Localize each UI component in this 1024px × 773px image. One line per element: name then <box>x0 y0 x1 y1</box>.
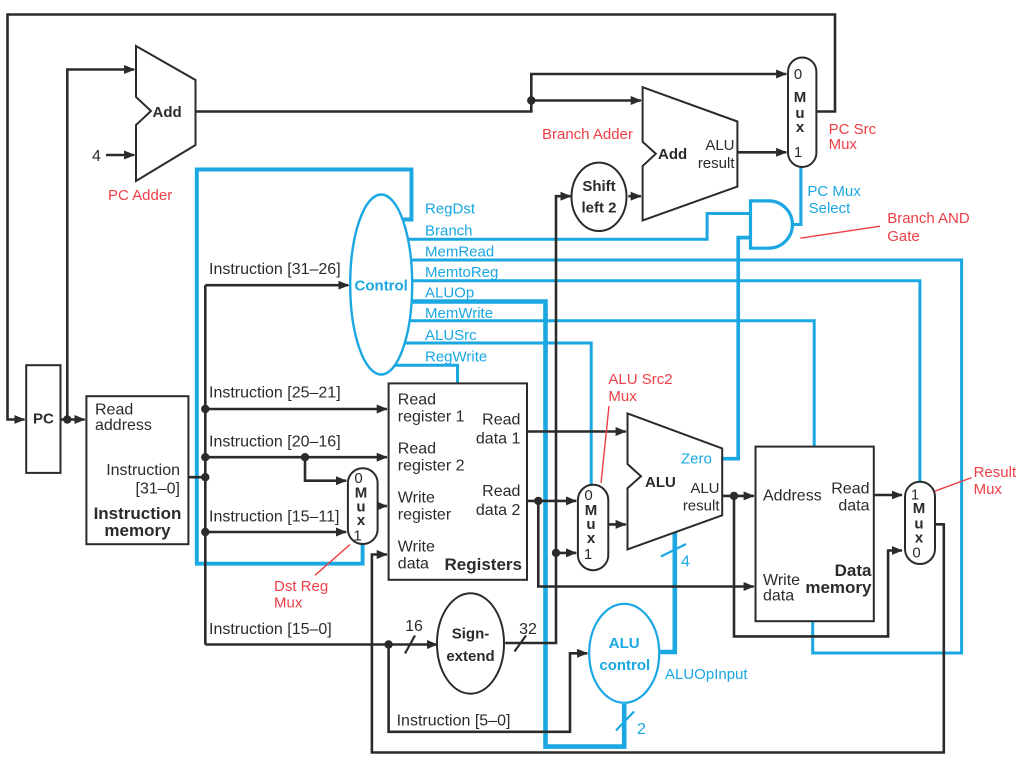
wire Sign-extend output up to Shift left 2 <box>505 196 571 643</box>
svg-text:[31–0]: [31–0] <box>136 481 180 498</box>
wire MemRead to Data memory bottom <box>400 260 962 653</box>
svg-text:MemtoReg: MemtoReg <box>425 264 498 281</box>
svg-text:x: x <box>357 512 366 529</box>
svg-text:x: x <box>587 530 596 547</box>
wire RegDst loop to Dst Reg Mux select <box>197 170 412 564</box>
svg-text:0: 0 <box>912 545 920 562</box>
svg-text:Branch AND: Branch AND <box>887 210 970 227</box>
ellipse Shift left 2 <box>572 163 627 231</box>
svg-text:Mux: Mux <box>608 388 637 405</box>
svg-text:Mux: Mux <box>829 136 858 153</box>
pointer Result Mux <box>935 478 972 492</box>
svg-text:ALU: ALU <box>690 480 719 497</box>
svg-text:result: result <box>698 155 736 172</box>
svg-text:0: 0 <box>794 66 802 83</box>
svg-text:PC Adder: PC Adder <box>108 187 172 204</box>
svg-text:M: M <box>794 89 807 106</box>
node 20-16 branch <box>301 453 309 461</box>
svg-text:Read: Read <box>831 481 869 498</box>
svg-text:Branch Adder: Branch Adder <box>542 126 633 143</box>
node PC output <box>63 415 71 423</box>
svg-text:Read: Read <box>482 412 520 429</box>
slash 2-bit <box>616 712 634 731</box>
svg-text:Result: Result <box>974 464 1017 481</box>
RED ANNOTATION LINES <box>315 226 972 575</box>
instruction memory box <box>86 396 188 544</box>
svg-text:Sign-: Sign- <box>452 626 490 643</box>
node PC+4 branch <box>527 96 535 104</box>
svg-text:MemRead: MemRead <box>425 244 494 261</box>
wire MemtoReg to Result Mux select <box>400 281 920 481</box>
wire AND gate output to PC Src Mux select <box>792 166 801 225</box>
svg-text:memory: memory <box>805 578 872 597</box>
svg-text:Mux: Mux <box>974 481 1003 498</box>
svg-text:ALU: ALU <box>645 474 676 491</box>
ellipse Control <box>350 195 412 375</box>
CYAN WIRES <box>197 166 962 747</box>
pointer Dst Reg Mux <box>315 545 350 576</box>
svg-text:register: register <box>398 507 452 524</box>
slash 32-bit <box>515 636 527 652</box>
wire Read data 1 to ALU <box>527 430 626 433</box>
svg-text:1: 1 <box>353 528 361 545</box>
svg-text:Read: Read <box>95 402 133 419</box>
svg-text:ALUOpInput: ALUOpInput <box>665 666 748 683</box>
svg-text:PC: PC <box>33 411 54 428</box>
slash 16-bit <box>405 636 415 654</box>
AND gate <box>751 201 793 248</box>
svg-text:Instruction [15–0]: Instruction [15–0] <box>209 621 332 638</box>
node ALU result tee <box>730 492 738 500</box>
wire Sign-extend branch to ALU Src2 Mux input 1 <box>556 552 576 555</box>
svg-text:control: control <box>599 657 650 674</box>
ellipse ALU control <box>589 604 659 703</box>
wire RegWrite to Registers <box>395 365 458 384</box>
svg-text:Write: Write <box>763 572 800 589</box>
wire Zero to AND gate <box>721 238 750 459</box>
svg-text:ALU: ALU <box>609 635 640 652</box>
wire Instruction 5-0 to ALU control <box>389 645 588 732</box>
node instruction output <box>201 473 209 481</box>
svg-text:MemWrite: MemWrite <box>425 305 493 322</box>
wire Instruction 15-0 to Sign-extend <box>205 643 437 646</box>
wire constant 4 into PC Adder <box>106 154 134 157</box>
svg-text:memory: memory <box>104 521 171 540</box>
wire Shift left 2 to Branch Adder <box>628 195 641 198</box>
node bus tap 20-16 <box>201 453 209 461</box>
svg-text:data 1: data 1 <box>476 431 521 448</box>
wire Read data 2 to ALU Src2 Mux input 0 <box>527 500 576 503</box>
wire PC Adder output to PC Src Mux input 0 <box>196 74 787 112</box>
svg-text:Select: Select <box>809 200 852 217</box>
wire ALUSrc to ALU Src2 Mux select <box>400 343 591 486</box>
wire Branch Adder output to PC Src Mux input 1 <box>737 151 786 154</box>
svg-text:4: 4 <box>92 148 101 165</box>
svg-text:RegDst: RegDst <box>425 201 476 218</box>
PC register box <box>26 365 60 473</box>
ellipse Sign-extend <box>437 593 504 693</box>
wire PC to instruction memory <box>61 418 85 421</box>
wire Instruction 15-11 to Dst Reg Mux input 1 <box>205 531 346 534</box>
mux ALU Src2 Mux <box>578 485 608 570</box>
svg-text:16: 16 <box>405 618 423 635</box>
svg-text:Address: Address <box>763 488 822 505</box>
svg-text:Branch: Branch <box>425 223 473 240</box>
node sign-extend line tee <box>552 549 560 557</box>
svg-text:RegWrite: RegWrite <box>425 349 487 366</box>
ALU main <box>628 413 723 549</box>
svg-text:Read: Read <box>482 483 520 500</box>
wire PC+4 to Branch Adder <box>531 99 641 102</box>
wire Instruction 20-16 to Read register 2 <box>205 456 387 459</box>
svg-text:Gate: Gate <box>887 228 920 245</box>
svg-text:Write: Write <box>398 539 435 556</box>
wire Instruction 20-16 branch to Dst Reg Mux input 0 <box>305 457 346 481</box>
svg-text:Instruction [20–16]: Instruction [20–16] <box>209 434 341 451</box>
wire instruction bus vertical <box>204 285 207 644</box>
wire instruction memory output to bus <box>188 476 205 479</box>
registers box <box>389 383 527 579</box>
svg-text:2: 2 <box>637 721 646 738</box>
svg-text:Dst Reg: Dst Reg <box>274 578 328 595</box>
slash 4-bit <box>661 544 686 557</box>
wire Instruction 25-21 to Read register 1 <box>205 408 387 411</box>
svg-text:Write: Write <box>398 490 435 507</box>
adder Branch Adder <box>643 87 738 220</box>
wire PC feedback loop <box>8 15 836 420</box>
svg-text:Add: Add <box>658 146 687 163</box>
BUS WIDTH SLASHES <box>405 544 686 731</box>
wire Dst Reg Mux output to Write register <box>378 505 387 508</box>
wire Branch to AND gate <box>400 214 750 240</box>
svg-text:data 2: data 2 <box>476 502 521 519</box>
svg-text:left 2: left 2 <box>581 200 616 217</box>
wire PC up to PC Adder <box>67 70 134 420</box>
adder PC Adder <box>136 46 196 181</box>
svg-text:32: 32 <box>519 621 537 638</box>
svg-text:1: 1 <box>584 546 592 563</box>
svg-text:ALUOp: ALUOp <box>425 285 474 302</box>
pointer Branch AND Gate <box>800 226 880 238</box>
svg-text:Instruction [15–11]: Instruction [15–11] <box>209 509 339 526</box>
pointer ALU Src2 Mux <box>601 406 609 483</box>
svg-text:M: M <box>913 500 926 517</box>
svg-text:Read: Read <box>398 392 436 409</box>
svg-text:data: data <box>398 556 429 573</box>
node 15-0 branch <box>384 640 392 648</box>
wire MemWrite to Data memory top <box>400 321 814 447</box>
svg-text:4: 4 <box>681 554 690 571</box>
node bus tap 15-11 <box>201 528 209 536</box>
wire Instruction 31-26 to Control <box>205 284 348 287</box>
wire Data memory Read data to Result Mux input 1 <box>874 494 902 497</box>
svg-text:data: data <box>838 498 869 515</box>
svg-text:address: address <box>95 417 152 434</box>
svg-text:ALU Src2: ALU Src2 <box>608 371 672 388</box>
mux Dst Reg Mux <box>348 468 378 544</box>
svg-text:Shift: Shift <box>582 178 615 195</box>
svg-text:register 2: register 2 <box>398 458 465 475</box>
svg-text:extend: extend <box>446 648 494 665</box>
svg-text:Control: Control <box>355 278 408 295</box>
svg-text:Registers: Registers <box>445 555 522 574</box>
svg-text:result: result <box>683 498 721 515</box>
mux Result Mux <box>905 482 935 564</box>
SHAPES <box>26 46 935 703</box>
wire ALU result to Data memory Address <box>722 495 754 498</box>
svg-text:Mux: Mux <box>274 595 303 612</box>
svg-text:data: data <box>763 588 794 605</box>
svg-text:Instruction [31–26]: Instruction [31–26] <box>209 261 341 278</box>
svg-text:ALU: ALU <box>705 137 734 154</box>
svg-text:Read: Read <box>398 441 436 458</box>
wire ALU result bypass to Result Mux input 0 <box>734 496 902 637</box>
wire Result Mux output writeback to Registers Write data <box>372 524 944 752</box>
svg-text:ALUSrc: ALUSrc <box>425 327 477 344</box>
wire ALU control output 4-bit to ALU <box>656 532 675 652</box>
svg-text:1: 1 <box>794 144 802 161</box>
wire ALUOp to ALU control <box>395 302 624 747</box>
node bus tap 25-21 <box>201 405 209 413</box>
svg-text:Instruction [25–21]: Instruction [25–21] <box>209 385 341 402</box>
svg-text:Zero: Zero <box>681 451 712 468</box>
svg-text:Add: Add <box>153 104 182 121</box>
svg-text:Instruction: Instruction <box>106 462 180 479</box>
node read data 2 tee <box>534 497 542 505</box>
mux PC Src Mux <box>788 58 816 168</box>
svg-text:PC Mux: PC Mux <box>807 183 861 200</box>
wire ALU Src2 Mux output to ALU <box>607 523 626 526</box>
svg-text:x: x <box>796 119 805 136</box>
svg-text:Instruction [5–0]: Instruction [5–0] <box>397 713 511 730</box>
svg-text:register 1: register 1 <box>398 409 465 426</box>
wire Read data 2 branch to Data memory Write data <box>538 501 754 587</box>
data memory box <box>756 447 874 622</box>
